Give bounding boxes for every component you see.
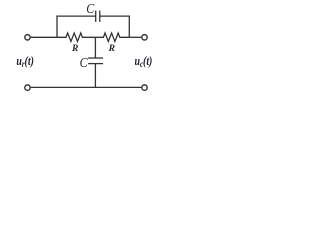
terminal node: input top	[25, 35, 30, 40]
wire: left vertical riser of top branch	[56, 16, 58, 38]
terminal node: output bottom	[142, 85, 147, 90]
capacitor C (shunt) bottom plate	[88, 63, 103, 65]
wire: top branch right lead	[100, 15, 130, 17]
wire: node B down to capacitor C top plate	[94, 37, 96, 58]
capacitor C (top bridge) left plate	[95, 11, 97, 22]
wire: input terminal to node A	[31, 36, 57, 38]
wire: node B to output terminal	[129, 36, 141, 38]
svg-text:uc(t): uc(t)	[135, 55, 153, 69]
capacitor C (top bridge) right plate	[99, 11, 101, 22]
svg-text:C: C	[86, 0, 94, 16]
terminal node: output top	[142, 35, 147, 40]
wire: right vertical riser of top branch	[128, 16, 130, 38]
svg-text:R: R	[71, 44, 78, 54]
svg-text:ur(t): ur(t)	[16, 55, 34, 69]
wire: top branch left lead	[56, 15, 95, 17]
wire: bottom rail	[31, 86, 142, 88]
svg-text:C: C	[80, 54, 88, 70]
resistor R (right) zigzag	[95, 33, 129, 42]
terminal node: input bottom	[25, 85, 30, 90]
capacitor C (shunt) top plate	[88, 57, 103, 59]
svg-text:R: R	[108, 44, 115, 54]
wire: capacitor C bottom plate to bottom rail	[94, 64, 96, 88]
resistor R (left) zigzag	[57, 33, 95, 42]
